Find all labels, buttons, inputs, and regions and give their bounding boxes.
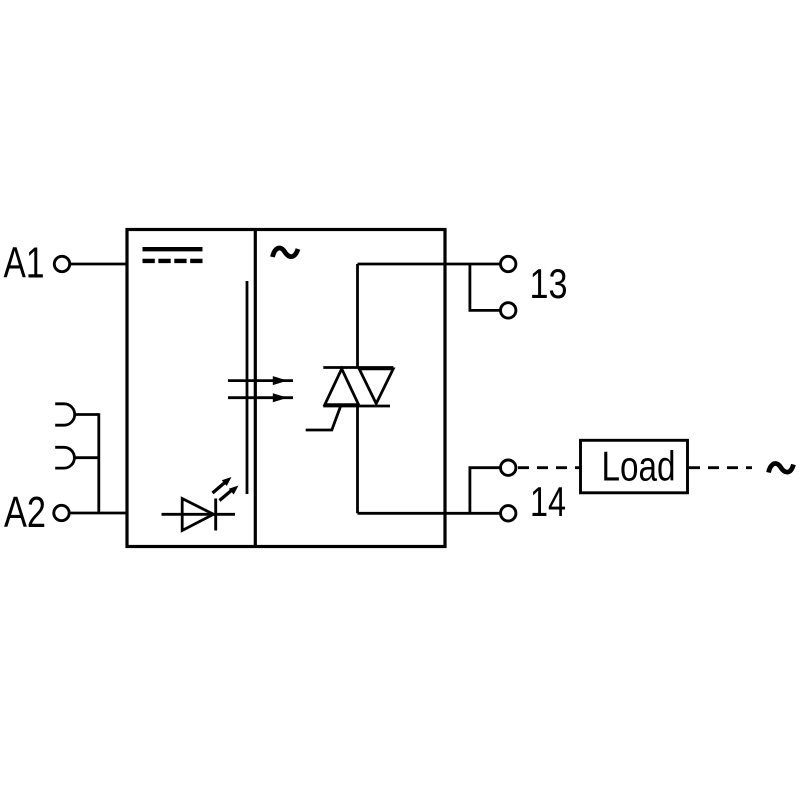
LED D1 (162, 499, 236, 531)
terminal circle 13 lower (501, 303, 516, 318)
wire loop top to terminal 13 (358, 263, 502, 266)
terminal circle 14 lower (501, 506, 516, 521)
svg-text:13: 13 (530, 260, 568, 307)
terminal circle A2 (54, 505, 69, 520)
wire A2 to module box (70, 512, 127, 515)
wire triac top (356, 264, 359, 368)
compartment divider (254, 230, 257, 547)
coupling arrow 1 (228, 376, 293, 385)
dashed wire 14 to load (518, 466, 581, 469)
DC symbol dashed bar (143, 259, 203, 263)
wire triac bottom (356, 406, 359, 513)
isolation barrier line (246, 281, 249, 494)
triac Q1 (323, 368, 393, 407)
coupling arrow 2 (228, 393, 293, 402)
terminal circle 13 upper (501, 256, 516, 271)
branch wire to 14 upper (470, 468, 501, 514)
triac gate (306, 407, 341, 431)
module box U1 outline (127, 230, 445, 547)
bus wire hooks to A2 (97, 413, 100, 513)
svg-text:Load: Load (602, 443, 676, 490)
wire loop bottom to terminal 14 (358, 512, 502, 515)
svg-text:A2: A2 (4, 488, 46, 537)
svg-text:14: 14 (530, 478, 566, 525)
wire A1 to module box (71, 263, 128, 266)
jumper contact hook 1 (55, 404, 99, 425)
dashed wire load to AC source (689, 466, 752, 469)
DC symbol solid bar (143, 247, 203, 251)
jumper contact hook 2 (55, 447, 99, 468)
load box (581, 440, 688, 493)
terminal circle 14 upper (501, 460, 516, 475)
AC source symbol (769, 464, 794, 473)
svg-text:A1: A1 (4, 239, 45, 288)
terminal circle A1 (54, 256, 69, 271)
LED emission arrow 1 (213, 477, 232, 493)
branch wire to 13 lower (470, 264, 501, 310)
AC symbol output compartment (273, 248, 299, 257)
LED emission arrow 2 (220, 486, 239, 501)
